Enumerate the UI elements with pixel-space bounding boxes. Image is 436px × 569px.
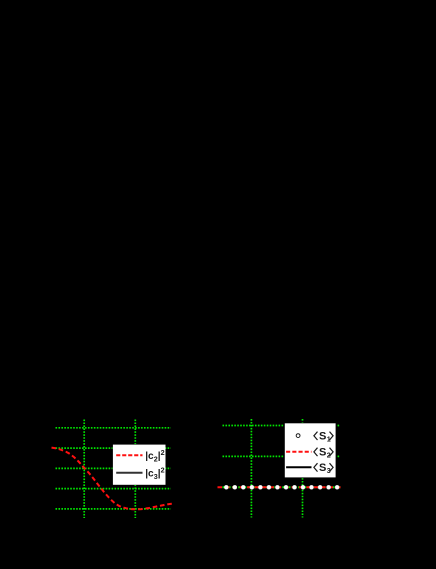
svg-text:S: S (319, 462, 326, 474)
right plot zero gridline (under S2 line) (223, 486, 341, 488)
left plot grid: horizontal green dotted lines (56, 428, 171, 509)
left plot grid: vertical green dotted lines (84, 420, 135, 519)
right plot grid: vertical green dotted lines (251, 419, 302, 518)
right legend box (284, 423, 336, 479)
red dashed line <S2> (right plot) (218, 486, 341, 488)
right legend circle marker sample (296, 434, 300, 438)
right legend red dashed sample (286, 451, 311, 453)
right legend label <S1> (319, 431, 331, 444)
right legend label <S2> (319, 447, 331, 460)
right legend label <S3> (319, 462, 331, 475)
white circle markers <S1> (right plot) (224, 485, 339, 489)
left legend black solid sample (116, 472, 142, 474)
left legend red dashed sample (116, 454, 142, 456)
red dashed curve |c2|^2 (left plot) (52, 448, 174, 510)
svg-text:S: S (319, 431, 326, 443)
right plot grid: horizontal green dotted lines (223, 426, 341, 457)
right legend black solid sample (286, 466, 311, 468)
svg-text:S: S (319, 447, 326, 459)
left legend box (113, 444, 166, 485)
